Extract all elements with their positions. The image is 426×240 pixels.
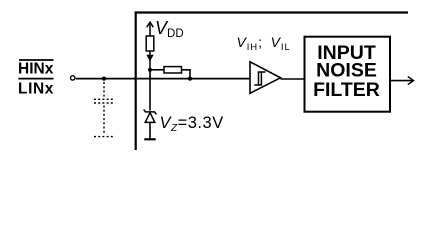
wire: buffer output to filter box — [281, 78, 306, 80]
wire: zener branch (vertical through main wire) — [149, 70, 151, 111]
wire: filter output — [390, 80, 413, 82]
zener diode VZ (cathode bar with bent ends) — [144, 109, 157, 114]
input terminal circle — [71, 76, 75, 80]
label LINx with overline — [18, 79, 54, 98]
VDD supply arrow — [147, 22, 154, 36]
resistor: series (horizontal) — [164, 67, 182, 73]
node: resistor branch joins main wire — [188, 77, 192, 81]
anode termination bar (to ground, cropped) — [144, 138, 155, 140]
hysteresis symbol inside buffer — [254, 72, 265, 85]
label HINx with overline — [18, 60, 54, 78]
current arrow (filled, pointing down) — [146, 51, 153, 69]
node: junction of dashed capacitor on input wire — [102, 77, 106, 81]
svg-text:FILTER: FILTER — [313, 79, 380, 101]
wire: zener anode down — [149, 122, 151, 138]
wire: node to series resistor — [150, 69, 164, 71]
zener diode triangle (anode below, pointing up) — [145, 113, 155, 123]
wire: input terminal to Schmitt trigger input — [76, 78, 250, 80]
wire: series resistor down to main wire — [182, 70, 191, 79]
node at top of zener / resistor branch — [148, 68, 152, 72]
Schmitt trigger buffer U1 (triangle) — [250, 62, 281, 94]
svg-text:HINx: HINx — [18, 61, 54, 78]
INPUT NOISE FILTER box — [305, 37, 391, 112]
IC boundary box (top and left edges) — [136, 13, 408, 151]
svg-text:VZ=3.3V: VZ=3.3V — [160, 114, 224, 134]
output arrowhead — [408, 77, 414, 85]
resistor: pull-up from VDD (vertical) — [146, 36, 154, 51]
svg-text:LINx: LINx — [18, 81, 54, 98]
dashed capacitor to ground (parasitic, dashed) — [94, 82, 114, 137]
svg-text:NOISE: NOISE — [316, 59, 377, 81]
